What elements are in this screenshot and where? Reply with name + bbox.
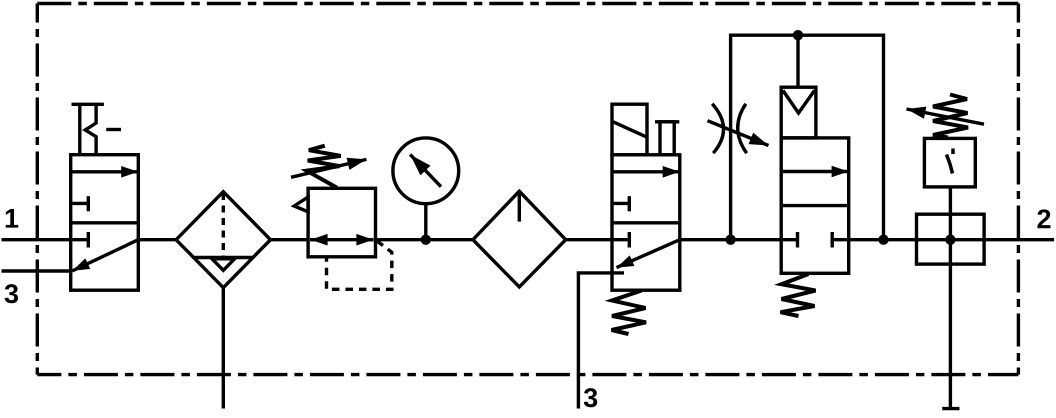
wire F1 to regulator [271, 238, 309, 241]
valve V1 bottom position diagonal flow arrow [72, 240, 138, 271]
regulator pilot feedback dashed line [327, 241, 392, 289]
switch contact symbol [947, 149, 954, 174]
valve V2 top position flow arrow [614, 170, 680, 173]
valve V2 solenoid coil [612, 104, 647, 155]
filter F1 condensate drain line [222, 288, 225, 409]
pressure switch adjustment arrow [907, 109, 985, 124]
wire port 2 outlet [984, 238, 1054, 241]
wire port 3 left exhaust [2, 269, 73, 272]
wire switch vertical connector [949, 187, 952, 240]
wire F2 to valve V2 [566, 238, 612, 241]
valve V1 top position blocked port T [71, 196, 89, 211]
valve V1 bottom position blocked port T [71, 232, 89, 248]
valve V1 3/2 manual on-off valve body [71, 155, 139, 291]
wire V2 outlet to soft-start valve [680, 238, 781, 241]
valve V2 3/2 solenoid valve body [612, 155, 680, 290]
junction dot right branch [878, 235, 888, 245]
soft-start valve bottom position blocked T left [781, 232, 797, 248]
pressure switch actuator box [917, 214, 985, 264]
valve V2 bottom position diagonal flow arrow [617, 240, 680, 268]
throttle restrictor arcs [712, 104, 747, 153]
wire port 1 inlet [2, 238, 71, 241]
valve V1 top position flow arrow [72, 170, 138, 173]
soft-start valve body [781, 138, 849, 273]
soft-start valve pilot box with check [781, 87, 816, 138]
regulator relieving vent triangle [294, 197, 308, 212]
soft-start valve top position flow arrow [783, 170, 849, 173]
pressure gauge [393, 138, 459, 240]
valve V2 return spring [612, 291, 647, 335]
junction dot gauge [421, 235, 431, 245]
port label 3 bottom [584, 388, 597, 407]
filter F2 inner line [518, 191, 521, 221]
junction dot switch [945, 235, 955, 245]
pressure switch spring [933, 95, 968, 138]
port label 1 [6, 209, 19, 228]
pressure regulator body [308, 188, 375, 256]
junction dot pilot top [793, 30, 803, 40]
filter F1 separator baffle [194, 258, 253, 271]
wire through switch box [917, 238, 985, 241]
throttle adjustment arrow [708, 121, 769, 146]
regulator adjustment spring [307, 146, 341, 188]
wire restrictor branch vertical and pilot top line [731, 35, 884, 240]
valve V2 pilot override button [655, 122, 679, 155]
soft-start valve return spring [781, 274, 816, 316]
regulator adjustment arrow [291, 159, 367, 177]
wire regulator to gauge junction [376, 238, 473, 241]
junction dot restrictor branch [725, 235, 735, 245]
pressure switch contact box [924, 138, 975, 187]
wire V2 exhaust to port 3 [578, 273, 624, 409]
filter F2 (diamond) [473, 191, 566, 287]
wire switch drain down [942, 240, 959, 409]
wire soft-start to pressure switch [849, 238, 917, 241]
filter F1 element dashed line [222, 193, 225, 256]
valve V2 bottom position blocked port T [612, 232, 629, 248]
filter F1 with water separator (diamond) [176, 192, 270, 288]
soft-start valve bottom position blocked T right [832, 232, 849, 248]
valve V1 manual detent actuator [72, 104, 122, 154]
regulator flow path with double arrow [310, 238, 374, 241]
port label 2 [1037, 209, 1050, 228]
valve V2 top position blocked port T [612, 196, 629, 211]
wire V1 outlet to filter F1 [138, 238, 176, 241]
port label 3 left [5, 284, 18, 303]
wire pilot drop to soft-start [796, 35, 799, 87]
